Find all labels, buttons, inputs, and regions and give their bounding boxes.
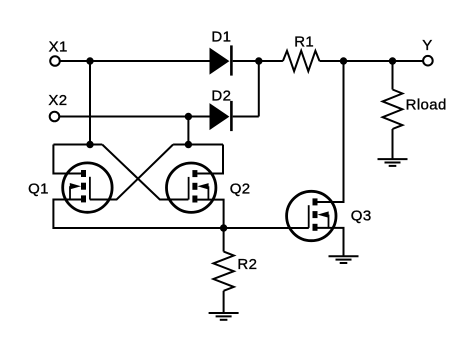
ground for R2 [209,313,239,320]
svg-text:R2: R2 [237,256,257,273]
resistor R2 [213,228,233,313]
junction common source node [220,224,227,231]
wire D2 branch up to output node [258,61,260,117]
svg-text:Q3: Q3 [351,207,372,224]
wire Y node down to Rload [392,61,394,90]
cross-coupling wire node A to Q2 gate [102,145,188,200]
wire node A to Q1 drain [53,145,81,174]
transistor Q1 [63,163,112,212]
wire Q2 source down to common rail [197,200,223,228]
svg-text:Rload: Rload [406,97,447,114]
junction node B [185,141,192,148]
svg-text:Q1: Q1 [28,180,49,197]
wire X2 node down to node B [187,117,189,145]
wire Q3 drain up to output [317,61,343,202]
wire X1 node down to node A [89,61,91,145]
wire common rail to Q3 gate [224,227,309,229]
wire Q3 source to ground [317,228,343,256]
terminal X1 [50,56,60,66]
wire node B to Q2 drain [197,145,223,174]
transistor Q2 [167,163,216,212]
junction X1 node to flip-flop branch [86,57,93,64]
ground for Q3 [329,256,359,263]
junction Rload tap [389,57,396,64]
wire X2 to D2 anode [60,116,210,118]
wire R1 to terminal Y [320,60,423,62]
svg-text:D1: D1 [211,29,231,46]
cross-coupling wire node B to Q1 gate [90,145,173,200]
junction Q3 drain joins output [340,57,347,64]
junction D2 branch joins output node [255,57,262,64]
wire Q1 source down to common rail [53,200,223,229]
svg-text:Y: Y [422,37,432,54]
diode D2 [210,101,232,131]
node B wire [173,144,223,146]
wire D1 cathode to R1 [233,60,283,62]
diode D1 [210,45,232,75]
transistor Q3 [287,191,336,240]
junction X2 node to flip-flop branch [185,113,192,120]
svg-text:Q2: Q2 [230,180,251,197]
svg-text:D2: D2 [211,87,231,104]
terminal Y [423,56,433,66]
resistor Rload [383,90,403,130]
svg-text:X2: X2 [48,92,67,109]
ground for Rload [378,159,408,166]
junction node A [86,141,93,148]
wire D2 cathode right [233,116,259,118]
wire Rload to ground [392,129,394,159]
node A wire [53,144,102,146]
resistor R1 [283,51,320,71]
svg-text:X1: X1 [49,38,68,55]
svg-text:R1: R1 [294,33,314,50]
terminal X2 [50,112,60,122]
wire X1 to D1 anode [60,60,210,62]
